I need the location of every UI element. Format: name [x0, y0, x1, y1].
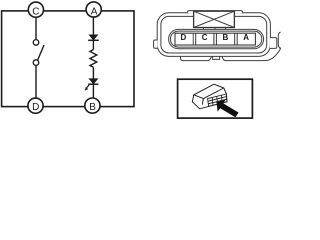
connector cavity inner stadium — [170, 31, 261, 47]
pin divider B/A — [234, 33, 236, 45]
diode D2 triangle — [89, 79, 98, 84]
resistor R1 zigzag — [90, 50, 97, 68]
svg-text:D: D — [32, 102, 39, 113]
connector icon body — [192, 84, 227, 109]
connector lock ticks — [202, 28, 204, 30]
diode D1 triangle — [89, 35, 98, 40]
terminal B — [85, 98, 100, 113]
wire: outer rectangle loop of schematic — [2, 11, 134, 107]
terminal A — [86, 2, 101, 17]
wire: switch branch bottom (switch to D) — [35, 65, 37, 100]
switch S1 blade — [38, 45, 44, 60]
svg-text:C: C — [202, 33, 208, 42]
terminal C — [28, 2, 43, 17]
connector lock tab box with X — [194, 11, 235, 27]
terminal D — [28, 98, 43, 113]
callout box frame — [178, 79, 253, 118]
pin divider D/C — [192, 33, 194, 45]
connector inner shell outline — [161, 16, 267, 53]
connector outer shell outline — [157, 13, 270, 57]
connector shell right foot and right sweep — [222, 48, 281, 61]
pin divider C/B — [213, 33, 215, 45]
wire: D1 to resistor R1 — [92, 40, 94, 49]
connector icon mating face with pin slots — [208, 94, 227, 106]
switch S1 contact circle bottom — [33, 60, 39, 66]
connector left side lug — [154, 40, 158, 48]
connector top plateau (lock base tabs) — [187, 11, 242, 14]
wire: switch branch top (C to switch) — [35, 16, 37, 40]
pin row outline — [175, 33, 255, 45]
diode D2 cathode bar — [88, 83, 98, 85]
svg-text:A: A — [91, 6, 98, 17]
svg-text:D: D — [181, 33, 187, 42]
wire: diode D2 to B — [92, 84, 94, 100]
connector shell bottom center notch — [213, 56, 220, 59]
svg-text:A: A — [243, 33, 249, 42]
svg-text:C: C — [32, 6, 39, 17]
wire: sensor branch top (A to diode D1) — [92, 16, 94, 35]
wire: resistor R1 to diode D2 — [92, 67, 94, 78]
pointer arrow — [216, 99, 238, 117]
switch S1 contact circle top — [33, 40, 39, 46]
connector cavity outer stadium — [169, 29, 264, 48]
svg-text:B: B — [223, 33, 229, 42]
diode D2 emission arrow — [86, 85, 89, 88]
svg-text:B: B — [89, 102, 96, 113]
connector far-right partial bracket — [278, 32, 280, 49]
connector right side lug — [270, 38, 277, 49]
connector shell left foot — [181, 56, 212, 60]
diode D1 cathode bar — [88, 39, 99, 41]
